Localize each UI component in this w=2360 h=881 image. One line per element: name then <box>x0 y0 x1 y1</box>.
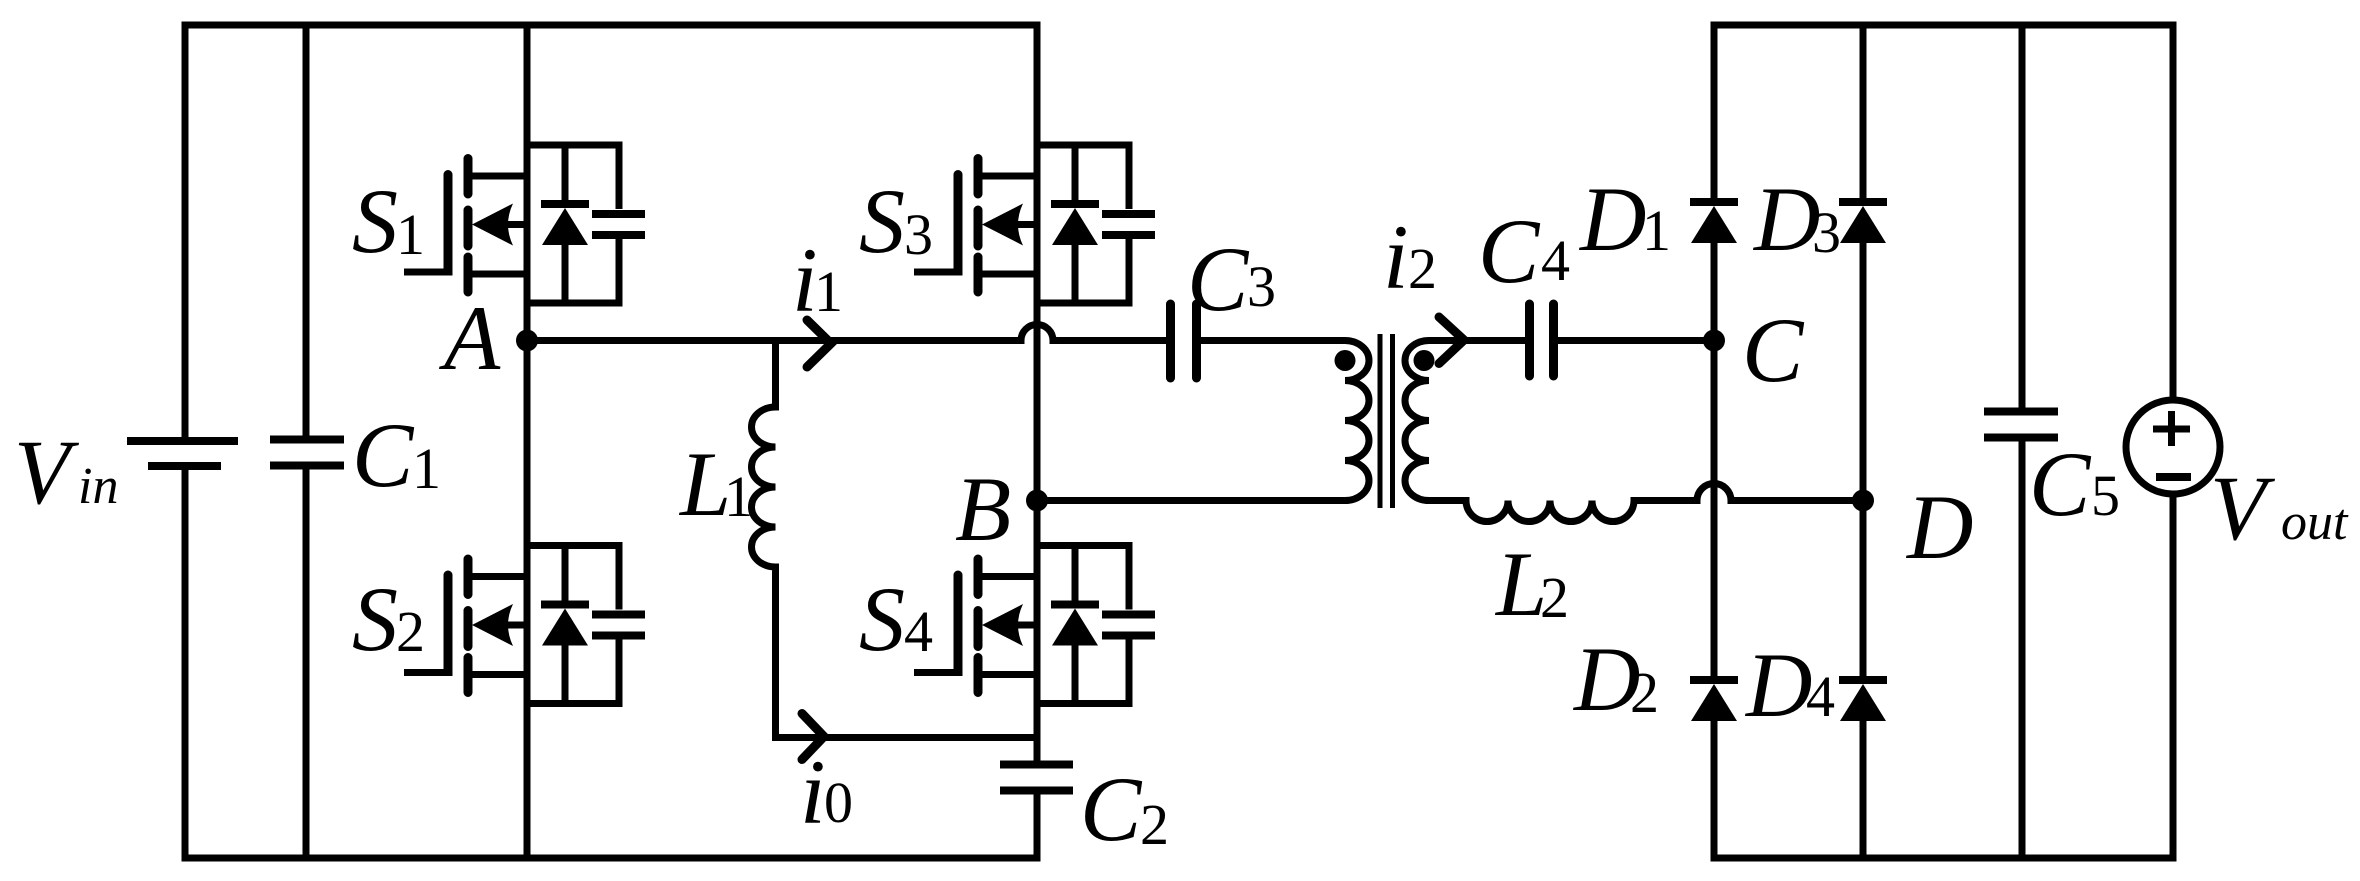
svg-text:4: 4 <box>904 599 933 664</box>
svg-text:S: S <box>352 568 398 670</box>
transformer primary polarity dot <box>1335 350 1356 371</box>
svg-text:1: 1 <box>412 436 441 501</box>
label S4 <box>859 568 933 670</box>
transformer primary winding with wire from C3 and wire to node B <box>1037 341 1369 501</box>
svg-text:B: B <box>955 458 1011 560</box>
svg-text:C: C <box>1187 228 1250 330</box>
label C3 <box>1187 228 1276 330</box>
svg-text:in: in <box>78 458 118 515</box>
label C5 <box>2029 433 2120 535</box>
svg-text:2: 2 <box>1630 660 1659 725</box>
transformer core <box>1380 334 1393 508</box>
label L1 <box>678 433 753 535</box>
label S3 <box>859 170 933 272</box>
svg-text:1: 1 <box>396 202 425 267</box>
label i0 <box>800 741 853 843</box>
wire: input loop top rail with Vin and C1 risers <box>185 22 1041 862</box>
label A <box>438 287 501 389</box>
svg-text:out: out <box>2281 494 2349 551</box>
label D3 <box>1752 168 1841 270</box>
label i1 <box>792 229 843 331</box>
label C2 <box>1080 758 1169 860</box>
label i2 <box>1383 206 1437 308</box>
diode D4 <box>1839 680 1887 721</box>
inductor L2 with wire to node D and hop over D1/D2 leg <box>1429 484 1863 522</box>
label D (node) <box>1905 476 1973 578</box>
label B <box>955 458 1011 560</box>
arrow i1 current direction <box>807 320 831 367</box>
svg-text:C: C <box>1080 758 1143 860</box>
wire: left bridge leg (S1/S2) <box>524 22 531 862</box>
wire: output bridge bottom rail <box>1714 442 2173 862</box>
wire: node A horizontal line with hop over S3/S4 leg <box>527 325 1166 341</box>
node C junction dot <box>1703 330 1725 352</box>
label S2 <box>352 568 425 670</box>
capacitor C3 (series blocking cap) <box>1171 304 1197 378</box>
transformer secondary winding with top exit wire <box>1405 341 1526 501</box>
label D1 <box>1578 168 1671 270</box>
svg-text:A: A <box>438 287 501 389</box>
svg-text:3: 3 <box>1812 200 1841 265</box>
svg-text:1: 1 <box>724 464 753 529</box>
svg-text:5: 5 <box>2091 463 2120 528</box>
svg-text:D: D <box>1905 476 1973 578</box>
svg-text:2: 2 <box>1540 565 1569 630</box>
wire: output bridge top rail <box>1714 22 2173 408</box>
svg-text:C: C <box>1742 299 1805 401</box>
transformer secondary polarity dot <box>1414 350 1435 371</box>
svg-text:3: 3 <box>904 202 933 267</box>
svg-text:3: 3 <box>1247 254 1276 319</box>
label L2 <box>1494 533 1569 635</box>
svg-text:4: 4 <box>1541 228 1570 293</box>
wire: D3/D4 leg middle segment <box>1860 242 1867 677</box>
svg-text:C: C <box>1478 200 1541 302</box>
capacitor C1 <box>270 440 344 466</box>
svg-text:1: 1 <box>1642 198 1671 263</box>
transistor S2 (MOSFET with body diode and snubber capacitor) <box>404 546 645 704</box>
svg-text:2: 2 <box>396 599 425 664</box>
arrow i0 current direction <box>802 714 824 760</box>
transistor S1 (MOSFET with body diode and snubber capacitor) <box>404 145 645 303</box>
diode D1 <box>1690 202 1738 243</box>
voltage source Vout (circle with plus and minus) <box>2126 400 2220 494</box>
svg-text:S: S <box>352 170 398 272</box>
svg-text:i: i <box>800 741 826 843</box>
capacitor C4 (series blocking cap) <box>1530 304 1554 376</box>
svg-text:D: D <box>1578 168 1646 270</box>
voltage source Vin (battery) <box>127 441 238 466</box>
label Vin <box>14 421 118 523</box>
diode D2 <box>1690 680 1738 721</box>
label D2 <box>1572 628 1659 730</box>
arrow i2 current direction <box>1439 317 1464 364</box>
svg-text:S: S <box>859 568 905 670</box>
svg-text:D: D <box>1744 634 1812 736</box>
label C4 <box>1478 200 1570 302</box>
svg-text:S: S <box>859 170 905 272</box>
svg-text:1: 1 <box>814 259 843 324</box>
svg-text:0: 0 <box>824 770 853 835</box>
node B junction dot <box>1026 490 1048 512</box>
label Vout <box>2210 457 2349 559</box>
label D4 <box>1744 634 1835 736</box>
label C1 <box>352 404 441 506</box>
transistor S4 (MOSFET with body diode and snubber capacitor) <box>914 546 1155 704</box>
diode D3 <box>1839 202 1887 243</box>
capacitor C2 <box>1000 765 1073 791</box>
svg-text:2: 2 <box>1408 236 1437 301</box>
svg-text:C: C <box>2029 433 2092 535</box>
wire: right bridge leg (S3/S4) with C2 branch <box>1034 22 1041 862</box>
label S1 <box>352 170 425 272</box>
node A junction dot <box>516 330 538 352</box>
svg-text:2: 2 <box>1140 792 1169 857</box>
svg-text:C: C <box>352 404 415 506</box>
wire: C4 to node C <box>1558 337 1714 344</box>
svg-text:V: V <box>2210 457 2276 559</box>
svg-text:i: i <box>1383 206 1409 308</box>
transistor S3 (MOSFET with body diode and snubber capacitor) <box>914 145 1155 303</box>
inductor L1 with i0 return wire <box>752 341 1038 738</box>
svg-text:4: 4 <box>1806 664 1835 729</box>
label C (node) <box>1742 299 1805 401</box>
wire: D1/D2 leg middle segment <box>1711 242 1718 677</box>
svg-text:D: D <box>1752 168 1820 270</box>
node D junction dot <box>1852 490 1874 512</box>
svg-text:V: V <box>14 421 80 523</box>
capacitor C5 <box>1984 412 2058 438</box>
